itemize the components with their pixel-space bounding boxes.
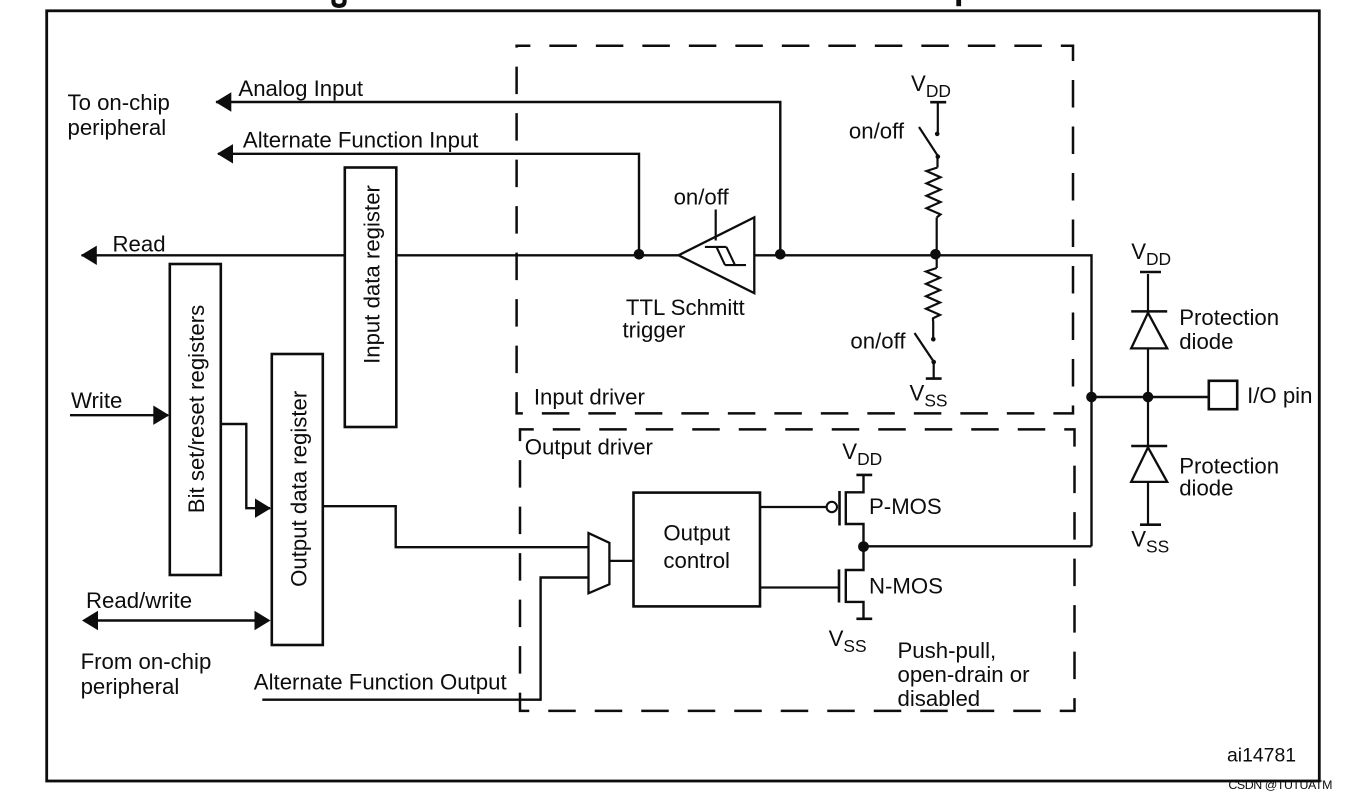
svg-text:Read/write: Read/write: [86, 588, 192, 613]
svg-text:control: control: [663, 548, 730, 573]
svg-text:on/off: on/off: [850, 329, 906, 354]
svg-text:Output: Output: [663, 521, 730, 546]
svg-text:VSS: VSS: [829, 626, 867, 656]
svg-text:Output data register: Output data register: [286, 390, 311, 587]
svg-text:peripheral: peripheral: [68, 115, 167, 140]
switch: pull-down on/off switch (dots and blade): [931, 337, 936, 342]
svg-text:VDD: VDD: [1131, 239, 1171, 269]
svg-text:diode: diode: [1179, 329, 1233, 354]
arrowhead: Analog Input (points left): [215, 92, 231, 111]
arrowhead: Read (points left): [81, 246, 97, 265]
box: Input data register: [345, 168, 397, 428]
power symbol: VDD bar above P-MOS: [856, 474, 872, 477]
svg-text:To on-chip: To on-chip: [68, 90, 170, 115]
arrowhead: Read/write right end: [255, 611, 271, 630]
wire: Alternate Function Output line up into multiplexer: [262, 578, 588, 700]
power symbol: VDD bar above pull-up: [930, 101, 946, 104]
node: junction protection diodes with I/O pin line: [1143, 392, 1154, 403]
arrowhead: Read/write left end: [82, 611, 98, 630]
svg-text:open-drain or: open-drain or: [898, 662, 1031, 687]
svg-text:VSS: VSS: [1131, 527, 1169, 557]
svg-text:Alternate Function Input: Alternate Function Input: [243, 127, 479, 152]
svg-text:disabled: disabled: [898, 686, 981, 711]
wire: output line from MOS drains to I/O column: [863, 545, 1091, 547]
svg-text:Protection: Protection: [1179, 305, 1279, 330]
node: junction P-MOS / N-MOS drains: [858, 541, 869, 552]
transistor Q2: N-MOS gate bar: [838, 569, 841, 602]
node: junction of pull-up/pull-down with pin line: [930, 249, 941, 260]
svg-text:Push-pull,: Push-pull,: [898, 638, 997, 663]
wire: connector Bit set/reset registers to Output data register: [221, 424, 270, 508]
wire: Alternate Function Input line with corner down to read line: [218, 154, 639, 254]
title fragment: descender of bold letter p (cropped heading): [956, 0, 961, 6]
svg-text:VSS: VSS: [910, 381, 948, 411]
wire: line from Schmitt trigger output to right side and down to output node: [754, 255, 1091, 546]
diode D1: upper protection diode (VDD): [1147, 274, 1149, 311]
svg-text:VDD: VDD: [911, 71, 951, 101]
svg-text:Read: Read: [113, 231, 166, 256]
wire: I/O pin horizontal line: [1092, 396, 1209, 398]
title fragment: descender of bold letter g (cropped heading): [333, 0, 344, 6]
svg-text:Input data register: Input data register: [360, 184, 385, 363]
resistor: pull-down resistor zigzag: [926, 268, 940, 321]
resistor: pull-up resistor zigzag: [927, 168, 941, 218]
svg-text:trigger: trigger: [623, 318, 687, 343]
power symbol: VSS bar below pull-down: [926, 377, 942, 380]
diode D2: lower protection diode (VSS): [1147, 397, 1149, 446]
symbol: hysteresis glyph inside Schmitt trigger: [705, 247, 746, 265]
transistor Q1: P-MOS body and source/drain leads: [846, 476, 864, 547]
wire: Analog Input horizontal line with corner down to read line: [216, 102, 780, 254]
wire: Output control to P-MOS gate: [760, 506, 826, 508]
wire: junction to pull-down resistor: [936, 255, 938, 268]
dashed box: Output driver: [520, 429, 1075, 711]
wire: Read/write double arrow line: [84, 619, 268, 621]
transistor Q1: P-MOS gate bubble: [827, 502, 837, 512]
svg-text:Output driver: Output driver: [525, 435, 654, 460]
svg-text:Write: Write: [71, 388, 122, 413]
svg-text:CSDN @TUTUATM: CSDN @TUTUATM: [1228, 778, 1332, 792]
arrowhead: connector into Output data register (points right): [255, 499, 271, 518]
svg-text:N-MOS: N-MOS: [869, 574, 943, 599]
svg-text:ai14781: ai14781: [1227, 745, 1296, 767]
node: junction of analog input column with pin line: [775, 249, 786, 260]
wire: on/off enable stub into Schmitt trigger: [715, 210, 717, 241]
wire: pull-down resistor to switch: [932, 321, 934, 339]
svg-text:peripheral: peripheral: [81, 674, 180, 699]
wire: Output control to N-MOS gate: [760, 586, 838, 588]
wire: switch to pull-up resistor: [936, 157, 938, 168]
box: Output data register: [272, 354, 323, 645]
svg-text:on/off: on/off: [849, 119, 905, 144]
transistor Q1: P-MOS gate bar: [838, 491, 841, 526]
svg-text:diode: diode: [1179, 476, 1233, 501]
wire: multiplexer output to Output control: [609, 560, 633, 562]
box: Bit set/reset registers: [170, 264, 221, 575]
svg-text:Alternate Function Output: Alternate Function Output: [254, 670, 507, 695]
svg-text:Analog Input: Analog Input: [238, 76, 363, 101]
power symbol: VSS bar below protection diode: [1140, 523, 1161, 526]
transistor Q2: N-MOS body and source/drain leads: [846, 546, 864, 617]
svg-text:Input driver: Input driver: [534, 384, 646, 409]
arrowhead: Write (points right into Bit set/reset box): [153, 406, 169, 425]
wire: Read line (left of Schmitt trigger): [82, 254, 679, 256]
wire: VDD to pull-up switch: [937, 102, 939, 134]
wire: switch to VSS bar: [933, 362, 935, 378]
svg-text:Bit set/reset registers: Bit set/reset registers: [184, 305, 209, 513]
wire: Output data register to multiplexer: [324, 506, 589, 547]
power symbol: VDD bar above protection diode: [1140, 271, 1161, 274]
op-amp: TTL Schmitt trigger triangle: [679, 217, 755, 293]
svg-text:From on-chip: From on-chip: [81, 649, 212, 674]
wire: Write input line: [70, 414, 168, 416]
svg-text:on/off: on/off: [674, 184, 730, 209]
svg-text:VDD: VDD: [842, 439, 882, 469]
arrowhead: Alternate Function Input (points left): [217, 144, 233, 163]
I/O pin square: [1209, 381, 1237, 409]
multiplexer trapezoid: [589, 533, 610, 593]
svg-text:I/O pin: I/O pin: [1247, 383, 1312, 408]
switch: pull-up on/off switch (dots and blade): [935, 132, 940, 137]
node: junction I/O column with I/O pin line: [1086, 392, 1097, 403]
wire: pull-up resistor to junction: [936, 218, 938, 256]
power symbol: VSS bar below N-MOS: [856, 617, 872, 620]
svg-text:TTL Schmitt: TTL Schmitt: [626, 295, 745, 320]
node: junction of AF input with read line: [634, 249, 645, 260]
dashed box: Input driver: [517, 46, 1073, 414]
box: Output control: [634, 493, 761, 607]
svg-text:P-MOS: P-MOS: [869, 494, 942, 519]
